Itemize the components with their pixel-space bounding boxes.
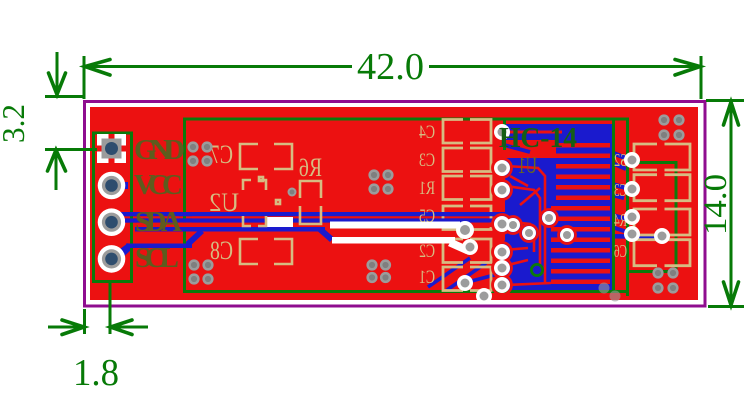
svg-text:SDA: SDA	[135, 206, 182, 238]
svg-text:GND: GND	[134, 134, 185, 166]
svg-text:C6: C6	[614, 241, 627, 261]
svg-text:HC-14: HC-14	[499, 122, 577, 154]
svg-text:C2: C2	[419, 241, 435, 262]
svg-text:1.8: 1.8	[73, 352, 119, 394]
svg-text:3.2: 3.2	[0, 104, 31, 143]
svg-text:C4: C4	[419, 122, 435, 143]
svg-text:R1: R1	[419, 178, 435, 199]
svg-text:VCC: VCC	[134, 169, 183, 201]
svg-text:U2: U2	[209, 188, 239, 217]
svg-text:SCL: SCL	[135, 242, 179, 274]
svg-text:C1: C1	[419, 267, 435, 288]
svg-text:C8: C8	[210, 236, 233, 265]
svg-text:U1: U1	[518, 153, 537, 178]
svg-text:42.0: 42.0	[357, 46, 424, 88]
svg-text:R6: R6	[299, 153, 322, 182]
svg-text:C5: C5	[419, 206, 435, 227]
svg-text:C3: C3	[419, 150, 435, 171]
svg-text:14.0: 14.0	[698, 174, 734, 235]
svg-text:C7: C7	[210, 140, 233, 169]
